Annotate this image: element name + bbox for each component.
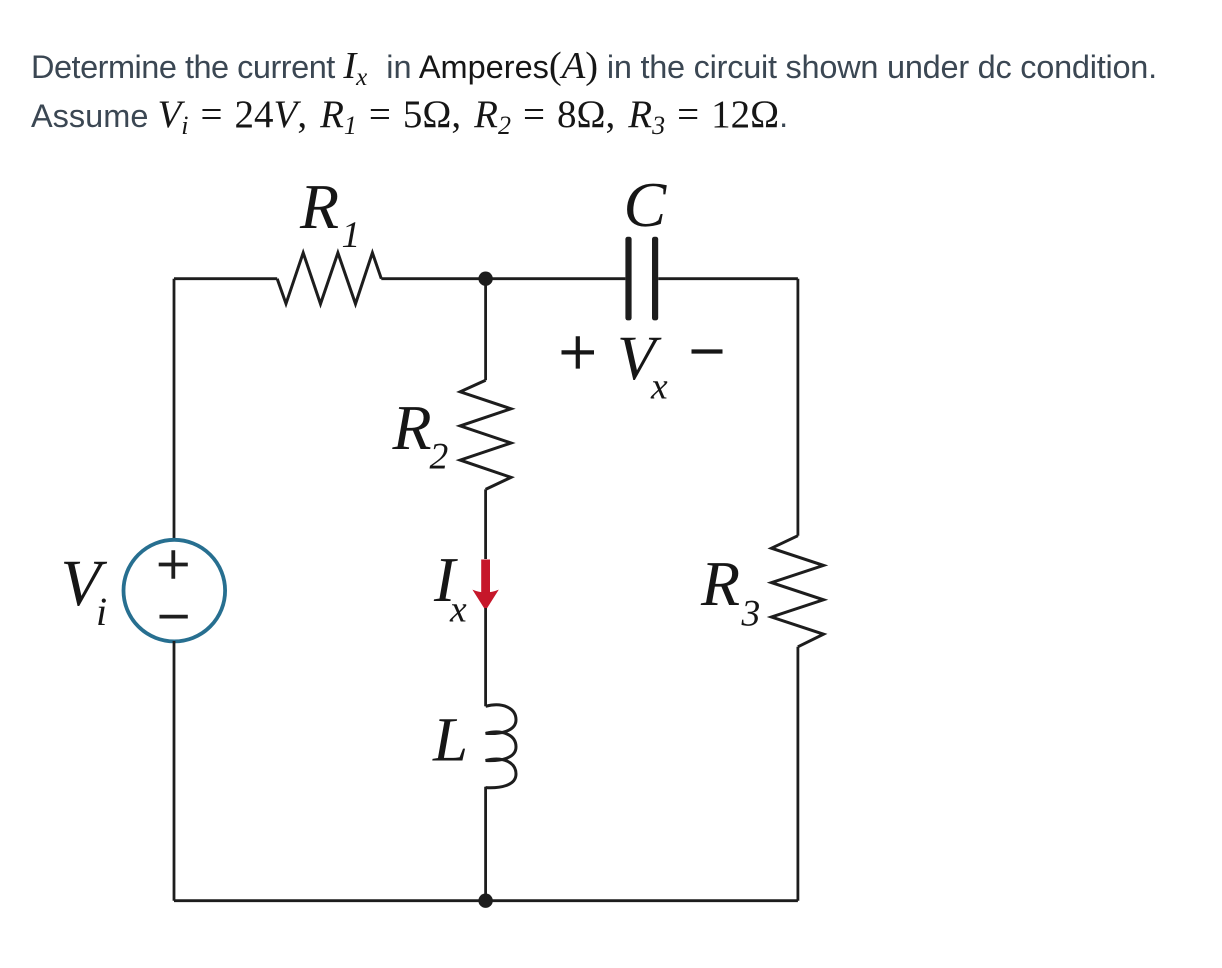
resistor R3 (772, 536, 824, 647)
wire: R1 to capacitor left plate (381, 277, 625, 280)
svg-text:R: R (299, 171, 339, 242)
svg-text:R: R (700, 548, 740, 619)
wire: middle branch top (junction to R2) (484, 279, 487, 381)
svg-text:3: 3 (741, 594, 761, 635)
+ inside source (159, 550, 188, 578)
svg-text:x: x (449, 590, 467, 631)
svg-text:R: R (392, 392, 432, 463)
wire: R2 to arrow region (484, 489, 487, 559)
svg-text:2: 2 (430, 437, 449, 478)
wire: left side bottom segment (173, 641, 176, 901)
wire: R3 to bottom-right corner (797, 647, 800, 901)
node: top junction dot (478, 272, 492, 286)
label - (of Vx) (692, 349, 723, 353)
svg-text:i: i (96, 589, 107, 634)
wire: right side down to R3 (797, 279, 800, 536)
svg-text:1: 1 (342, 215, 361, 256)
problem text line 2 (31, 92, 788, 141)
wire: bottom horizontal (174, 899, 798, 902)
voltage source Vi circle (124, 540, 226, 642)
label + (of Vx) (562, 336, 595, 368)
svg-text:L: L (432, 705, 468, 775)
wire: left side top segment (173, 279, 176, 541)
wire: arrow to inductor (484, 608, 487, 706)
wire: top-left horizontal from corner to R1 (174, 277, 277, 280)
capacitor C plates (625, 237, 631, 321)
wire: inductor to bottom junction (484, 787, 487, 901)
svg-text:x: x (650, 367, 668, 408)
resistor R1 (277, 253, 381, 304)
problem text line 1 (31, 44, 1157, 92)
- inside source (160, 615, 188, 619)
node: bottom junction dot (478, 894, 492, 908)
svg-text:C: C (624, 169, 668, 240)
current arrow Ix (red) (481, 560, 490, 593)
resistor R2 (460, 380, 511, 489)
inductor L (486, 705, 516, 788)
wire: capacitor right plate to top-right corner (658, 277, 798, 280)
